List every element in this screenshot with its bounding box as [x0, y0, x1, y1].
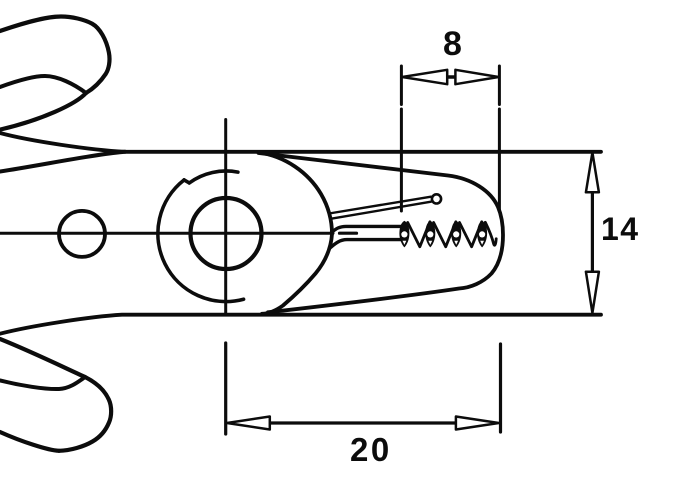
handle pin circle: [59, 211, 105, 257]
bottom handle grip tip: [59, 377, 111, 451]
serif foot for digit 1 of label 14: [604, 236, 618, 239]
vertical centerline: [224, 120, 227, 313]
upper jaw inner edge: [331, 226, 401, 233]
vertical centerline lower extension (20 dim): [224, 343, 227, 434]
bottom handle grip diagonal: [0, 339, 85, 377]
spring connector wires: [408, 222, 497, 247]
head cheek (egg curve around pivot): [259, 152, 332, 313]
pivot outer boss arc notch jog: [184, 180, 189, 183]
dimension label 8: [443, 27, 462, 61]
pivot outer boss arc upper segment: [189, 171, 238, 183]
dimension 8: extension lines: [400, 66, 403, 211]
horizontal centerline end dash: [340, 232, 357, 235]
top handle inner grip line: [0, 76, 86, 93]
upper jaw outline to nose tip and lower jaw return: [259, 153, 504, 312]
top handle grip outline: [0, 17, 110, 94]
bottom handle inner grip line: [0, 377, 85, 389]
spring coil loops: [399, 221, 487, 248]
lower jaw inner edge: [330, 240, 400, 248]
horizontal centerline: [0, 232, 333, 235]
bottom handle underside curve: [0, 432, 59, 451]
handle shank lower edge merging into head top: [0, 152, 125, 172]
pivot bore circle: [191, 198, 262, 269]
pivot outer boss arc main segment: [158, 180, 244, 302]
dimension 20: line and arrowheads: [269, 421, 456, 424]
dimension 14: line and arrowheads: [591, 193, 594, 272]
head top edge line (extends right as extension line for 14): [0, 133, 601, 152]
head bottom edge line (extends right as extension line for 14): [0, 315, 601, 334]
top handle underside curve: [0, 93, 86, 130]
dimension label 20: [350, 433, 392, 466]
dimension 8: line and arrowheads: [446, 75, 457, 78]
dimension label 14: [601, 213, 640, 245]
dimension 20: extension lines: [499, 344, 502, 432]
wire stop pin with round head: [329, 197, 431, 214]
spring coil eyes: [401, 231, 485, 245]
